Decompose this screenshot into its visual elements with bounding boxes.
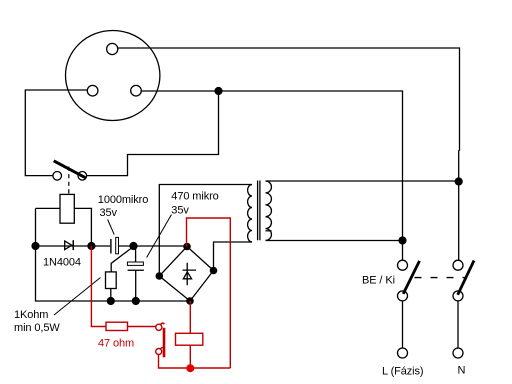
svg-text:N: N bbox=[458, 365, 466, 377]
clip blade bar bbox=[163, 328, 166, 358]
red wire resistor to clip bbox=[128, 326, 156, 328]
switch coupling dashed bbox=[415, 277, 466, 279]
wire top pin to right rail and down to switch N bbox=[118, 48, 460, 260]
label line 470 mikro bbox=[147, 215, 172, 258]
clip terminal 2 bbox=[156, 349, 162, 355]
svg-text:1N4004: 1N4004 bbox=[43, 257, 81, 269]
label line 1000mikro bbox=[108, 220, 115, 235]
wire relay coil right lead bbox=[74, 208, 91, 246]
wire transformer primary top to right rail bbox=[266, 180, 459, 182]
svg-text:35v: 35v bbox=[171, 204, 189, 216]
bridge inner diode bbox=[183, 263, 197, 285]
red wire lamp bottom bbox=[189, 345, 191, 368]
junction dot top rail bbox=[455, 177, 463, 185]
bridge corner dot bottom bbox=[186, 297, 194, 305]
clip terminal 1 bbox=[156, 324, 162, 330]
wire main dc rail right part bbox=[118, 245, 187, 247]
wire relay coil left lead bbox=[36, 207, 61, 209]
red wire lamp top from bridge bottom bbox=[189, 301, 191, 333]
junction dot cap bottom bbox=[132, 297, 140, 305]
wire right pin to rail and down to switch L bbox=[141, 91, 402, 260]
wire relay contact to node A (step) bbox=[87, 91, 219, 176]
wire transformer primary bottom to switch rail bbox=[266, 240, 403, 242]
bridge corner dot right bbox=[210, 267, 218, 275]
junction dot resistor bottom bbox=[107, 297, 115, 305]
capacitor C1 1000mikro right plate (hollow) bbox=[116, 237, 119, 253]
relay contact terminals bbox=[53, 172, 62, 181]
wire switch N to terminal bbox=[457, 301, 459, 348]
svg-text:L (Fázis): L (Fázis) bbox=[382, 366, 423, 378]
relay contact lever bbox=[54, 161, 87, 178]
transformer secondary winding bbox=[248, 185, 252, 243]
diode D1 cathode bar bbox=[73, 240, 75, 250]
junction dot left rail bbox=[31, 242, 39, 250]
red wire from cathode node down bbox=[91, 246, 106, 327]
switch L terminals bbox=[398, 260, 408, 270]
wire resistor R1 bottom lead bbox=[110, 289, 112, 302]
transformer tap mark bbox=[266, 230, 272, 232]
junction dot diode cathode node bbox=[87, 242, 95, 250]
red wire clip2 to bottom rail bbox=[159, 355, 231, 369]
bridge corner dot top bbox=[183, 243, 191, 251]
resistor R2 47ohm body bbox=[106, 322, 128, 330]
wire switch L to terminal bbox=[402, 301, 404, 348]
svg-text:470 mikro: 470 mikro bbox=[171, 190, 218, 202]
mains plug socket outline bbox=[66, 31, 160, 121]
transformer primary winding bbox=[266, 181, 272, 240]
label line 1Kohm bbox=[54, 278, 101, 316]
junction dot node A bbox=[214, 87, 222, 95]
socket top pin bbox=[107, 43, 118, 54]
junction dot primary bottom bbox=[398, 236, 406, 244]
wire resistor R1 top lead diagonal to node bbox=[111, 247, 133, 272]
wire capacitor C2 top lead bbox=[135, 247, 137, 263]
wire left pin to left rail down to relay contact bbox=[25, 90, 87, 176]
svg-text:47 ohm: 47 ohm bbox=[98, 338, 134, 350]
red junction dot bbox=[186, 364, 194, 372]
lamp F1 body bbox=[176, 333, 203, 345]
svg-text:1Kohm: 1Kohm bbox=[14, 309, 48, 321]
switch N terminals bbox=[453, 260, 463, 270]
socket left pin bbox=[87, 85, 98, 96]
bridge rectifier diamond bbox=[159, 247, 213, 302]
wire bridge right to transformer secondary bottom bbox=[214, 242, 253, 271]
bridge corner dot left bbox=[156, 272, 164, 280]
wire transformer secondary top to bridge left bbox=[159, 185, 252, 277]
switch N lever bbox=[458, 261, 474, 295]
wire capacitor C2 bottom lead bbox=[135, 271, 137, 301]
relay mechanical link dashed bbox=[68, 167, 70, 195]
capacitor C2 470mikro top plate (hollow) bbox=[127, 262, 143, 265]
transformer core bbox=[258, 181, 260, 241]
wire relay branch vertical and bottom rail bbox=[36, 208, 191, 301]
junction dot cap node bbox=[129, 242, 137, 250]
relay coil K1 bbox=[60, 194, 74, 223]
wire main dc rail left part bbox=[36, 245, 111, 247]
switch L lever bbox=[403, 261, 419, 294]
resistor R1 1Kohm body bbox=[106, 272, 117, 289]
svg-text:BE / Ki: BE / Ki bbox=[362, 275, 395, 287]
svg-text:1000mikro: 1000mikro bbox=[98, 194, 148, 206]
red wire from bridge top to right red rail bbox=[187, 218, 231, 368]
svg-text:min 0,5W: min 0,5W bbox=[14, 322, 60, 334]
capacitor C2 470mikro bottom plate bbox=[128, 270, 144, 271]
diode D1 1N4004 triangle bbox=[65, 241, 72, 250]
capacitor C1 1000mikro left plate bbox=[110, 239, 111, 254]
socket right pin bbox=[131, 85, 142, 96]
svg-text:35v: 35v bbox=[100, 207, 118, 219]
